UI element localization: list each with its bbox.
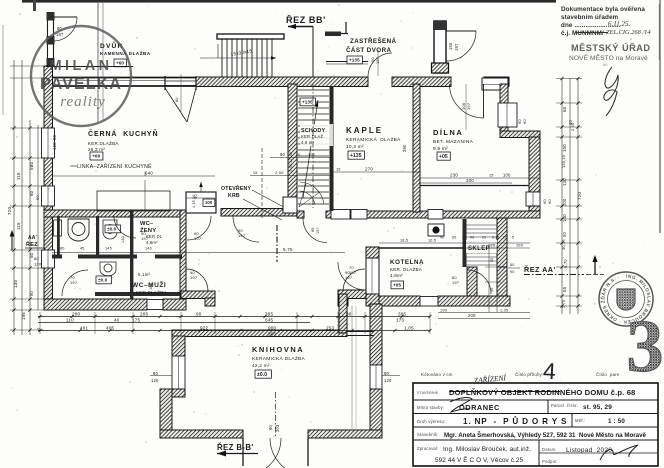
svg-text:20: 20 (482, 236, 486, 240)
svg-text:65: 65 (562, 106, 567, 112)
svg-text:KER.DL: KER.DL (146, 234, 163, 239)
svg-text:+60: +60 (116, 60, 124, 65)
section line BB through stairwell (312, 84, 314, 208)
svg-text:197: 197 (466, 102, 471, 110)
svg-text:č.j. MUNMNM/: č.j. MUNMNM/ (561, 30, 604, 37)
svg-text:5.15: 5.15 (492, 236, 499, 240)
dilna door arc (483, 84, 485, 118)
svg-text:5: 5 (512, 236, 514, 240)
svg-text:st. 95, 29: st. 95, 29 (583, 404, 612, 411)
small wc fixture (54, 220, 62, 236)
south wall kotelna/sklep (379, 296, 420, 306)
corridor door arcs at openings (186, 269, 208, 291)
svg-text:Číslo přílohy:: Číslo přílohy: (515, 372, 543, 377)
signature squiggle (604, 67, 618, 116)
svg-text:592 44 V Ě C O V, Věcov č.25: 592 44 V Ě C O V, Věcov č.25 (435, 455, 524, 464)
svg-text:720: 720 (7, 206, 12, 215)
svg-text:580: 580 (29, 161, 34, 170)
east window 60/60 (498, 103, 517, 127)
north exterior wall (44, 66, 53, 87)
svg-text:5,70: 5,70 (563, 259, 568, 268)
svg-text:80: 80 (34, 256, 39, 261)
svg-text:15: 15 (336, 168, 341, 172)
svg-text:16,5: 16,5 (428, 239, 436, 243)
boiler dot (428, 224, 444, 236)
svg-text:190: 190 (440, 308, 448, 313)
svg-text:ŘEZ AA': ŘEZ AA' (524, 265, 556, 274)
svg-text:+05: +05 (393, 282, 401, 287)
svg-text:KER. DLAŽBA: KER. DLAŽBA (390, 265, 423, 272)
svg-text:Parcel. číslo:: Parcel. číslo: (551, 403, 578, 408)
svg-text:±0.0: ±0.0 (107, 226, 117, 231)
west wall window 80/120 (42, 128, 55, 158)
wc door arcs (114, 216, 136, 238)
svg-text:120: 120 (52, 142, 57, 150)
svg-text:60: 60 (522, 119, 527, 124)
svg-text:145: 145 (105, 247, 112, 251)
svg-text:40: 40 (603, 63, 608, 67)
svg-text:195: 195 (21, 312, 26, 320)
svg-text:45: 45 (80, 247, 85, 251)
left dimension chain lines (13, 60, 15, 335)
svg-text:197: 197 (345, 275, 353, 280)
svg-text:KRB: KRB (228, 193, 240, 199)
svg-text:KAPLE: KAPLE (346, 126, 383, 135)
svg-text:6.11.25.: 6.11.25. (608, 20, 630, 28)
kaple east wall (413, 84, 420, 212)
svg-text:900: 900 (268, 326, 277, 331)
svg-text:230: 230 (450, 173, 458, 178)
room row south wall (44, 210, 180, 217)
svg-text:197: 197 (194, 236, 202, 241)
svg-text:60: 60 (547, 199, 552, 204)
svg-text:720: 720 (577, 191, 582, 200)
svg-text:ŘEZ B-B': ŘEZ B-B' (217, 443, 254, 452)
svg-text:100: 100 (205, 200, 213, 205)
svg-text:Mgr. Aneta Šmerhovská, Výhledy: Mgr. Aneta Šmerhovská, Výhledy 527, 592 … (444, 431, 647, 439)
svg-text:40: 40 (440, 236, 444, 240)
svg-text:3: 3 (627, 306, 664, 388)
courtyard gate door arc 80/197 (53, 16, 77, 18)
svg-text:4,8m²: 4,8m² (390, 273, 403, 278)
wc mid wall (52, 255, 62, 259)
corridor west wall (339, 294, 347, 333)
svg-text:18,5: 18,5 (400, 239, 408, 243)
svg-text:50: 50 (29, 252, 34, 258)
knihovna west wall (172, 336, 185, 356)
svg-text:20: 20 (503, 236, 507, 240)
courtyard pillar (434, 21, 446, 73)
svg-text:2.34,17,30: 2.34,17,30 (289, 152, 293, 172)
svg-text:60: 60 (35, 195, 40, 200)
svg-text:197: 197 (454, 43, 459, 51)
svg-text:ČÁST DVORA: ČÁST DVORA (346, 47, 391, 54)
svg-text:80: 80 (52, 134, 57, 140)
kotelna east wall (467, 267, 477, 299)
svg-text:ZASTŘEŠENÁ: ZASTŘEŠENÁ (350, 37, 397, 45)
svg-text:1. NP - P Ů D O R Y S: 1. NP - P Ů D O R Y S (463, 415, 567, 426)
dilna dim row (420, 177, 540, 179)
svg-text:STAVEBNÍK: STAVEBNÍK (417, 391, 439, 395)
svg-text:Měř.:: Měř.: (575, 418, 586, 423)
svg-text:SKLEP: SKLEP (468, 246, 490, 252)
svg-text:80: 80 (29, 190, 34, 196)
stair treads (298, 89, 329, 91)
svg-text:9,9 m²: 9,9 m² (433, 146, 448, 152)
svg-text:+60: +60 (92, 154, 101, 160)
corridor guide lines (351, 306, 353, 430)
krb dim 90 arrow (200, 182, 202, 192)
svg-text:160: 160 (448, 42, 453, 50)
svg-text:175: 175 (396, 318, 405, 323)
svg-text:4: 4 (542, 358, 556, 385)
svg-text:15: 15 (253, 171, 257, 175)
stair arrow (303, 100, 318, 198)
svg-text:90: 90 (268, 424, 273, 430)
scan artifact right edge line (659, 0, 661, 233)
svg-text:60: 60 (510, 263, 515, 267)
svg-text:MILAN: MILAN (50, 58, 113, 74)
west exterior wall (44, 66, 53, 128)
svg-text:50: 50 (562, 232, 567, 237)
sklep east dim chain (488, 245, 490, 312)
svg-text:ŘEZ BB': ŘEZ BB' (286, 14, 326, 25)
svg-text:100: 100 (503, 173, 511, 178)
svg-text:100: 100 (562, 144, 567, 152)
svg-text:300: 300 (268, 332, 277, 337)
sklep door arc (467, 270, 491, 294)
kotelna north boundary (370, 247, 472, 249)
svg-text:Místo stavby:: Místo stavby: (417, 405, 444, 410)
svg-text:120: 120 (384, 378, 392, 383)
courtyard NE corner mark (345, 22, 347, 34)
svg-text:1,05: 1,05 (500, 309, 508, 313)
svg-text:42,2 m²: 42,2 m² (252, 363, 270, 369)
svg-text:MĚSTSKÝ ÚŘAD: MĚSTSKÝ ÚŘAD (571, 42, 651, 53)
svg-text:+135: +135 (349, 57, 360, 62)
stairwell west wall (288, 84, 297, 208)
svg-text:90: 90 (346, 312, 352, 317)
stair winders (300, 182, 324, 204)
svg-text:4,9 m²: 4,9 m² (301, 140, 314, 145)
svg-text:140: 140 (145, 247, 152, 251)
svg-text:KNIHOVNA: KNIHOVNA (252, 345, 304, 354)
corridor east window 80/120 (370, 365, 382, 389)
title block table (413, 383, 658, 466)
svg-text:Kótováno v cm: Kótováno v cm (421, 372, 453, 377)
east window 60/60 lower (526, 192, 540, 206)
fireplace niche in stair wall (283, 197, 297, 213)
svg-text:KER.DLAŽ: KER.DLAŽ (301, 134, 323, 139)
corridor piece west (181, 291, 215, 299)
watermark MILAN PAVELKA reality (31, 26, 131, 126)
kitchen counter (97, 191, 170, 211)
east bottom dims (438, 312, 530, 314)
svg-text:15: 15 (462, 236, 466, 240)
fireplace KRB block (186, 192, 216, 213)
svg-text:105: 105 (149, 283, 153, 290)
round stamp Ing. Miloslav Broucek (598, 272, 653, 326)
corridor piece east (338, 290, 370, 299)
svg-text:ODRANEC: ODRANEC (459, 403, 500, 412)
kotelna west wall with door (366, 258, 379, 294)
dimension tick marks (38, 315, 41, 318)
svg-text:Podpis:: Podpis: (542, 459, 557, 464)
knihovna top wall (172, 330, 347, 337)
svg-text:100: 100 (516, 244, 523, 248)
svg-text:PAVELKA: PAVELKA (40, 75, 122, 93)
scan artifact top edge strip (22, 0, 556, 3)
svg-text:+05: +05 (439, 154, 448, 160)
west wall window 60/60 (42, 186, 55, 206)
svg-text:OTEVŘENÝ: OTEVŘENÝ (221, 184, 251, 192)
svg-text:10,3 m²: 10,3 m² (346, 144, 364, 150)
svg-text:BET. MAZANINA: BET. MAZANINA (433, 139, 474, 145)
svg-text:KOTELNA: KOTELNA (390, 259, 424, 266)
svg-text:ČERNÁ KUCHYŇ: ČERNÁ KUCHYŇ (88, 129, 158, 138)
svg-text:135: 135 (13, 279, 18, 288)
kitchen dim 640 (52, 175, 215, 177)
svg-text:197: 197 (316, 227, 320, 234)
svg-text:5,1m²: 5,1m² (138, 272, 151, 277)
right dimension chain lines (561, 78, 563, 314)
scan noise specks (160, 52, 161, 53)
svg-text:130: 130 (121, 236, 125, 243)
svg-text:LINKA–ZAŘÍZENÍ KUCHYNĚ: LINKA–ZAŘÍZENÍ KUCHYNĚ (77, 162, 152, 170)
scan left edge (2, 25, 4, 115)
stairwell east wall (330, 86, 334, 211)
pillar door 160/197 (446, 30, 476, 32)
svg-text:1 : 50: 1 : 50 (608, 418, 625, 425)
svg-text:4.15.30: 4.15.30 (192, 195, 196, 208)
svg-text:65: 65 (562, 286, 567, 292)
svg-text:2.40: 2.40 (570, 122, 575, 131)
dilna south thick wall band (420, 185, 529, 187)
covered courtyard roof edge (326, 61, 368, 63)
svg-text:80: 80 (175, 97, 179, 102)
svg-text:197: 197 (141, 236, 149, 241)
svg-text:100: 100 (308, 153, 315, 157)
toilet fixtures (68, 219, 89, 241)
svg-text:20: 20 (296, 153, 300, 157)
svg-text:640: 640 (145, 171, 153, 176)
wc south inner wall (95, 292, 181, 296)
svg-text:WC–: WC– (140, 221, 154, 227)
svg-text:205: 205 (140, 312, 149, 317)
svg-text:ZEL.CIG.268 /14: ZEL.CIG.268 /14 (606, 29, 651, 36)
svg-text:26,3 m²: 26,3 m² (88, 147, 105, 152)
kotelna door arc 70/197 (338, 262, 366, 290)
svg-text:197: 197 (190, 275, 198, 280)
svg-text:115: 115 (16, 222, 21, 230)
svg-text:60: 60 (452, 236, 456, 240)
kaple dim row (333, 171, 420, 173)
svg-text:±0.0: ±0.0 (98, 277, 108, 282)
svg-text:+135: +135 (350, 153, 362, 159)
kotelna dim row (379, 242, 530, 244)
svg-text:KER.DLAŽBA: KER.DLAŽBA (88, 139, 119, 146)
wc dims (52, 252, 345, 254)
svg-text:197: 197 (349, 270, 357, 275)
bottom dim row lines (38, 316, 430, 318)
corridor mouth threshold (347, 331, 374, 333)
svg-text:ŘEZ: ŘEZ (26, 240, 38, 248)
svg-text:40: 40 (114, 318, 120, 323)
label SCHODY (300, 124, 333, 146)
svg-text:90: 90 (29, 290, 34, 296)
courtyard south boundary line (46, 66, 133, 68)
east wall step (500, 131, 540, 138)
svg-text:1,05: 1,05 (404, 326, 414, 331)
svg-text:120: 120 (151, 378, 159, 383)
svg-text:645: 645 (265, 318, 274, 323)
svg-text:2,00: 2,00 (275, 170, 284, 175)
svg-text:90: 90 (470, 236, 474, 240)
svg-text:Ing. Miloslav Brouček, aut.inž: Ing. Miloslav Brouček, aut.inž. (443, 446, 531, 453)
knihovna french door (242, 438, 244, 466)
knihovna south wall east part (308, 430, 382, 438)
svg-text:Druh výkresu:: Druh výkresu: (417, 419, 445, 424)
stair hall dims (270, 157, 333, 159)
svg-text:NOVÉ MĚSTO na Moravě: NOVÉ MĚSTO na Moravě (569, 53, 648, 62)
svg-text:±0.0: ±0.0 (257, 372, 267, 378)
svg-text:197: 197 (238, 233, 246, 238)
wc-muzi door arc (62, 270, 88, 296)
svg-text:5,75: 5,75 (283, 247, 293, 252)
north wall opening 165-196 (164, 76, 166, 90)
svg-text:130,15: 130,15 (561, 155, 566, 168)
svg-text:253: 253 (326, 326, 335, 331)
wc block partition walls (57, 216, 60, 256)
knihovna east wall lower (370, 389, 382, 437)
courtyard west wall with posts (47, 12, 49, 66)
svg-text:90: 90 (280, 152, 286, 157)
svg-text:197: 197 (70, 280, 78, 285)
svg-text:80: 80 (60, 247, 65, 251)
svg-text:90: 90 (196, 312, 202, 317)
svg-text:+135: +135 (302, 99, 313, 104)
svg-text:115: 115 (16, 172, 21, 180)
svg-text:270: 270 (365, 167, 373, 172)
west wing south wall (44, 299, 147, 310)
svg-text:200: 200 (468, 313, 476, 318)
west wall window lower (42, 250, 55, 268)
svg-text:175: 175 (132, 318, 141, 323)
niche V below opening (165, 88, 187, 122)
svg-text:15: 15 (489, 174, 493, 178)
svg-text:Datum:: Datum: (542, 447, 557, 452)
svg-text:203: 203 (275, 424, 280, 432)
stairs dim arrow (200, 57, 276, 59)
south wall window boxes kaple (331, 210, 350, 220)
east wall upper (500, 84, 508, 103)
svg-text:330: 330 (466, 178, 474, 183)
svg-text:reality: reality (60, 94, 106, 110)
corridor east wall (370, 304, 382, 365)
svg-text:Dokumentace byla ověřena: Dokumentace byla ověřena (561, 6, 645, 13)
svg-text:DÍLNA: DÍLNA (433, 128, 463, 137)
knihovna south wall west part (160, 430, 243, 438)
svg-text:AA': AA' (28, 235, 37, 241)
svg-text:Zpracoval:: Zpracoval: (417, 446, 439, 451)
exterior stairs 15x30x15 (217, 34, 284, 39)
svg-text:197: 197 (452, 280, 460, 285)
svg-text:110: 110 (66, 318, 74, 323)
north wall window right 482-508 (482, 78, 508, 90)
svg-text:DOPLŇKOVÝ OBJEKT RODINNÉHO DOM: DOPLŇKOVÝ OBJEKT RODINNÉHO DOMU č.p. 68 (449, 388, 635, 397)
svg-text:50: 50 (490, 258, 494, 262)
sklep stairs (463, 219, 467, 267)
svg-text:80: 80 (153, 371, 159, 376)
signature in title block (600, 445, 638, 460)
svg-text:30,15: 30,15 (561, 239, 566, 250)
courtyard east boundary lines (97, 3, 99, 122)
svg-text:Stavebník:: Stavebník: (417, 432, 439, 437)
svg-text:30: 30 (490, 288, 494, 292)
svg-text:197: 197 (375, 56, 380, 64)
svg-text:390: 390 (402, 144, 407, 152)
svg-text:85: 85 (311, 227, 315, 232)
svg-text:Číslo pare: Číslo pare (596, 372, 620, 377)
svg-text:90: 90 (510, 270, 515, 274)
